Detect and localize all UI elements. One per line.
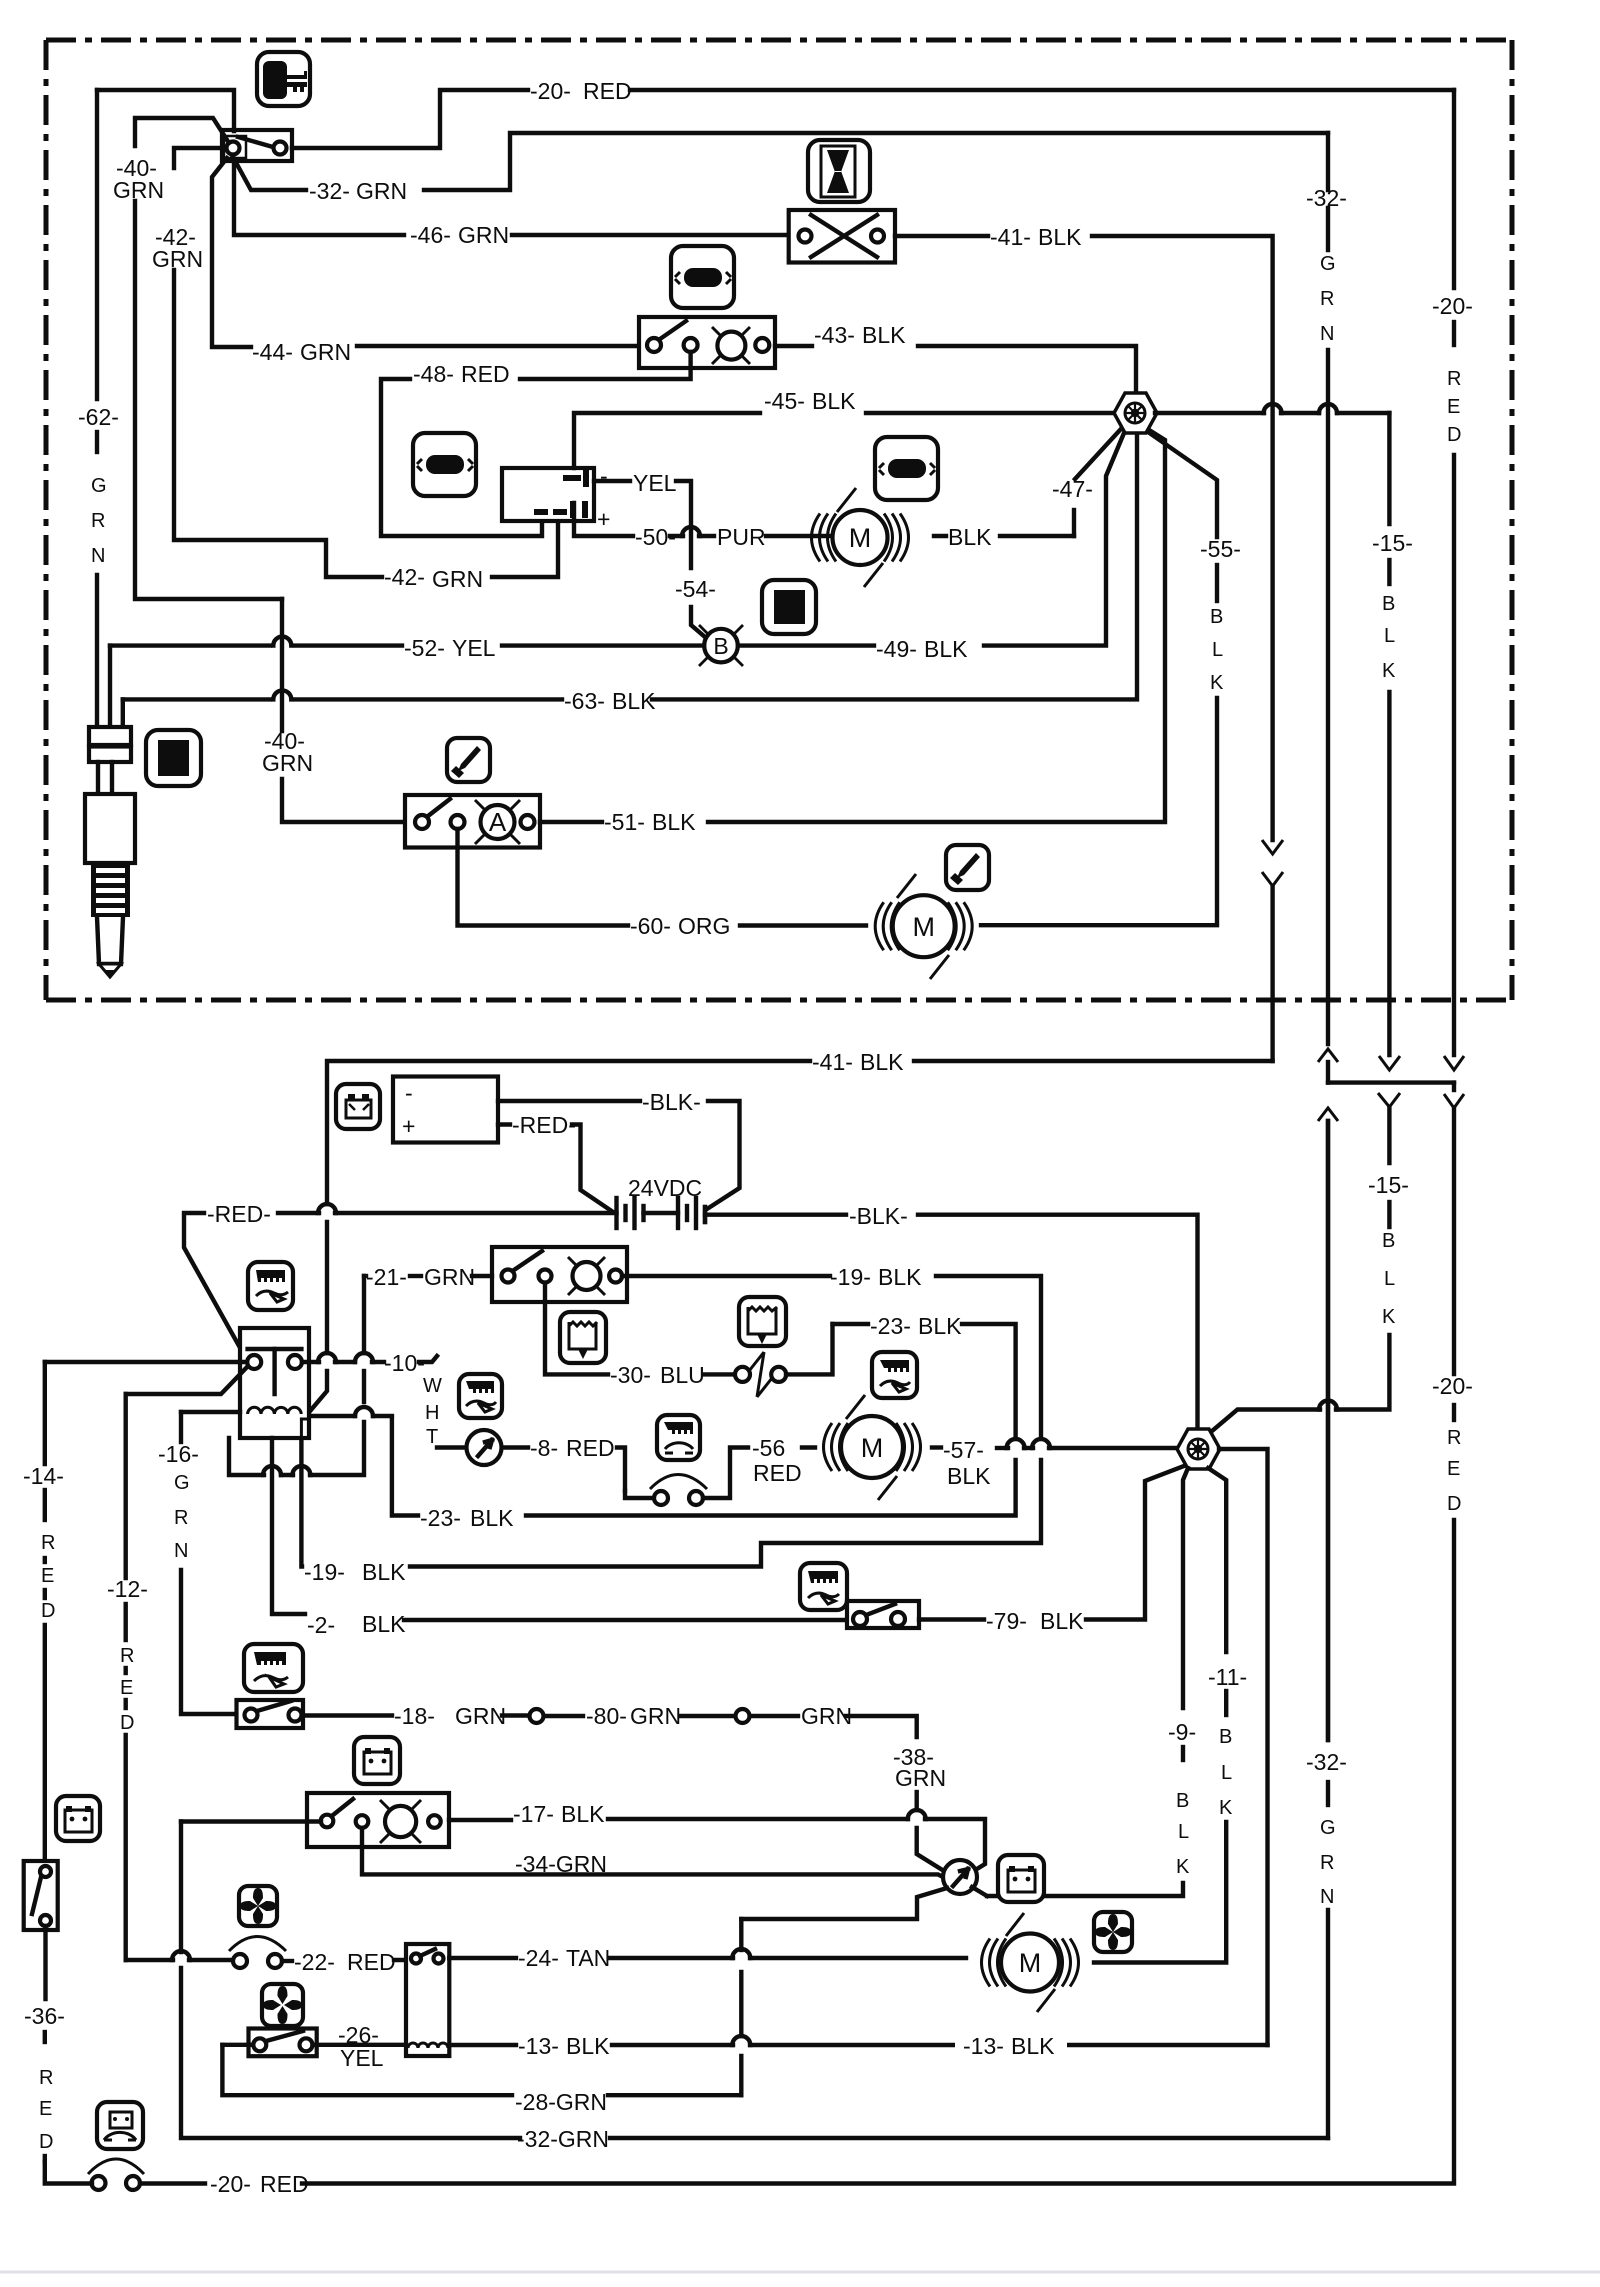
svg-text:-57-: -57- [943,1437,984,1463]
svg-text:N: N [1320,1886,1334,1908]
light switch SW2 box [639,317,775,368]
svg-text:L: L [1384,625,1395,647]
svg-text:D: D [41,1600,55,1622]
gauge ray SW to -28- path [741,1888,947,1919]
fan icon right of fan motor [1094,1912,1132,1952]
-17- switch blade [333,1799,353,1815]
svg-text:T: T [426,1426,438,1448]
fan icon above -26- switch [262,1984,303,2026]
svg-text:M: M [849,523,872,553]
svg-text:-45-: -45- [764,388,805,414]
light switch terminal 1 [647,338,661,352]
svg-text:BLK: BLK [652,809,696,835]
wire -41- BLK lower run to battery charger [914,1059,1273,1063]
wire -2- BLK from relay pole [272,1438,305,1614]
main relay terminal 2 [288,1355,302,1369]
svg-text:A: A [489,807,507,837]
main relay box [240,1328,309,1438]
svg-text:BLK: BLK [812,388,856,414]
svg-text:+: + [402,1113,415,1139]
svg-text:R: R [1447,368,1461,390]
voltage regulator box [502,468,594,521]
headlight switch blade [514,1251,542,1270]
svg-text:ORG: ORG [678,913,730,939]
traction motor M3 [841,1416,903,1478]
svg-text:B: B [1176,1790,1189,1812]
svg-text:-15-: -15- [1368,1172,1409,1198]
-17- switch lamp [385,1806,416,1837]
svg-text:-11-: -11- [1208,1664,1247,1690]
svg-text:-51-: -51- [604,809,645,835]
svg-text:BLK: BLK [362,1559,406,1585]
wire -19- BLK headlight switch loop [622,1274,830,1278]
svg-text:K: K [1210,672,1224,694]
svg-text:-21-: -21- [366,1264,407,1290]
solenoid terminal L [799,230,812,243]
svg-text:G: G [174,1472,190,1494]
wire -48- RED from light switch to regulator [520,352,691,379]
svg-text:-32-GRN: -32-GRN [517,2126,609,2152]
svg-text:-RED-: -RED- [207,1201,271,1227]
lamp icon above dynamo [875,437,938,500]
svg-text:-2-: -2- [307,1612,335,1638]
wire -9- BLK junction J2 to gauge [1183,1468,1188,1708]
wire -55- BLK wiper motor to junction [981,698,1217,925]
gauge ray to -9- [972,1887,987,1896]
fan icon above -22- fuse [239,1886,277,1926]
chevron on -32- at boundary [1318,1049,1338,1062]
wire -15- lower into junction J2 [1336,1335,1389,1410]
svg-text:-32-: -32- [1306,185,1347,211]
svg-text:24VDC: 24VDC [628,1175,702,1201]
lamp icon (rounded square with pill) above light switch [671,246,734,308]
headlight switch terminal 1 [502,1270,515,1283]
squeegee icon above wiper motor [946,845,989,890]
wire -32- GRN from ignition blade to right rail [233,157,306,190]
svg-text:RED: RED [753,1460,802,1486]
svg-text:-BLK-: -BLK- [642,1089,701,1115]
svg-text:-17-: -17- [513,1801,554,1827]
dynamo motor M1 [833,510,888,565]
brake fluid icon 1 [560,1312,606,1363]
ammeter switch terminal 1 [415,815,429,829]
wire -14- RED feed to relay [45,1360,247,1364]
svg-text:-30-: -30- [610,1362,651,1388]
wire -51- BLK ammeter to junction [540,820,602,824]
svg-text:E: E [41,1565,54,1587]
chevron receiving -32- below bus [1318,1108,1338,1121]
svg-text:-44-: -44- [252,339,293,365]
wire -57- BLK motor to junction J2 [932,1445,941,1449]
battery 24VDC cells [614,1198,618,1228]
wire -62- GRN vertical (glow plug feed) [95,90,99,399]
wire -RED- charger positive to battery [498,1122,510,1126]
battery icon top-left of -36- switch [56,1796,100,1841]
wire 40-GRN upper corner to ignition [135,118,229,146]
svg-text:RED: RED [461,361,510,387]
wire to connector [502,1713,529,1717]
svg-text:-52-: -52- [404,635,445,661]
main relay terminal 1 [247,1355,261,1369]
battery icon above -17- switch [354,1737,400,1784]
wire -36- bottom corner [45,2162,92,2184]
wiper motor right chevrons [948,902,973,950]
fan relay contact 1 [411,1954,421,1964]
thermal icon above -18- switch [244,1644,303,1692]
wire -20- RED lower rail to bottom [302,1520,1454,2184]
wire GRN to -38- drop [750,1714,798,1718]
svg-text:E: E [39,2098,52,2120]
headlight switch terminal 3 [609,1270,622,1283]
wire junction J2 exit right to -13- rail [1219,1449,1268,2045]
svg-text:BLK: BLK [470,1505,514,1531]
harness junction node J2 (hexagon) [1177,1429,1220,1469]
fan relay box [406,1944,449,2056]
wire -43- BLK from light switch to junction [775,344,812,348]
svg-text:GRN: GRN [458,222,509,248]
ammeter A [481,805,515,839]
svg-text:B: B [1210,606,1223,628]
wire -20- RED right rail [1452,90,1456,288]
svg-text:-54-: -54- [675,576,716,602]
connector circle (18/80) [530,1709,544,1723]
-36- key switch box [24,1861,58,1930]
wire -13- BLK fan relay coil to -13- rail [449,2043,516,2047]
wire -26- YEL switch to fan relay coil [313,2043,407,2047]
svg-text:-56: -56 [752,1435,785,1461]
wire -30- to brake switch [704,1372,735,1376]
svg-text:D: D [1447,1493,1461,1515]
svg-text:-42-: -42- [384,564,425,590]
fan relay contact 2 [434,1954,444,1964]
wire YEL from regulator [594,479,630,483]
-17- switch terminal 1 [321,1815,334,1828]
svg-text:D: D [39,2131,53,2153]
wire between fuse and relay [282,1959,292,1963]
svg-text:-41-: -41- [812,1049,853,1075]
wire -14- RED left rail [43,1362,47,1464]
wire -15- rail continues to boundary [1387,692,1391,1055]
svg-text:BLK: BLK [1038,224,1082,250]
svg-text:-9-: -9- [1168,1719,1196,1745]
svg-text:-19-: -19- [304,1559,345,1585]
battery charger icon [336,1084,380,1129]
svg-text:-55-: -55- [1200,536,1241,562]
headlight switch box [492,1247,627,1302]
svg-text:D: D [1447,424,1461,446]
thermal icon above traction motor [872,1352,917,1398]
svg-text:RED: RED [566,1435,615,1461]
wire -80- GRN [544,1714,583,1718]
svg-text:-13-: -13- [518,2033,559,2059]
svg-text:BLK: BLK [924,636,968,662]
svg-text:GRN: GRN [801,1703,852,1729]
svg-text:BLK: BLK [948,524,992,550]
svg-text:R: R [91,510,105,532]
svg-text:-28-GRN: -28-GRN [515,2089,607,2115]
headlight switch terminal 2 [539,1270,552,1283]
svg-text:K: K [1382,660,1396,682]
svg-text:B: B [713,633,728,659]
glow plug body [85,794,135,863]
svg-text:-10-: -10- [384,1350,425,1376]
ammeter switch terminal 2 [451,815,465,829]
wire BLK dynamo to -47- [934,534,946,538]
dynamo right chevrons [884,514,909,562]
wire -22- RED from -12- rail [126,1958,173,1962]
svg-text:L: L [1221,1762,1232,1784]
glow plug threads [91,863,130,917]
battery icon right of gauge [998,1855,1044,1902]
wire -BLK- charger negative to battery [498,1099,640,1103]
svg-text:B: B [1382,593,1395,615]
svg-text:R: R [41,1532,55,1554]
light switch terminal 3 [755,338,769,352]
svg-text:L: L [1212,639,1223,661]
fuel shutoff solenoid box with X [789,210,895,263]
svg-text:-32-: -32- [1306,1749,1347,1775]
wire -50- PUR regulator to dynamo [574,503,633,536]
ignition switch terminal B [274,142,287,155]
svg-text:PUR: PUR [717,524,766,550]
svg-text:-43-: -43- [814,322,855,348]
-79- switch blade [866,1604,895,1615]
fan motor right chevrons [1054,1939,1079,1987]
wire -30- BLU from headlight switch [545,1283,608,1374]
wiper motor left chevrons [875,902,900,950]
svg-text:-34-GRN: -34-GRN [515,1851,607,1877]
wire -45- BLK regulator to junction [574,413,760,468]
svg-text:R: R [1320,1852,1334,1874]
light switch lamp [717,332,745,360]
svg-text:-62-: -62- [78,404,119,430]
wire -20- rail continues to boundary [1452,455,1456,1055]
svg-text:-79-: -79- [986,1608,1027,1634]
svg-text:YEL: YEL [340,2045,384,2071]
-17- switch terminal 2 [356,1815,369,1828]
wire 40-GRN vertical [135,201,282,599]
wire -20- RED from ignition to right rail [292,90,528,148]
wire to connector 2 [680,1714,735,1718]
junction J1 through-wire (-45- continues right) [1155,411,1264,415]
svg-text:GRN: GRN [300,339,351,365]
svg-text:K: K [1176,1856,1190,1878]
svg-text:-: - [600,463,608,489]
svg-text:M: M [1019,1948,1042,1978]
svg-text:-8-: -8- [530,1435,558,1461]
svg-text:-50-: -50- [635,524,676,550]
wire -15- lower rail dash [1387,1202,1391,1227]
svg-text:GRN: GRN [895,1765,946,1791]
regulator plus terminal marks [534,501,588,518]
svg-text:-20-: -20- [1432,1373,1473,1399]
wire -60- ORG switch to wiper motor [458,829,629,926]
svg-text:BLK: BLK [1040,1608,1084,1634]
wire -8- RED voltmeter to fuse [502,1445,528,1449]
svg-text:BLK: BLK [561,1801,605,1827]
svg-text:R: R [1320,288,1334,310]
squeegee icon above ammeter switch [447,738,490,782]
-26- switch terminal 1 [253,2038,266,2051]
thermal icon above -56- fuse [657,1415,700,1460]
wire -32- GRN left riser [179,1822,183,1953]
svg-text:-23-: -23- [420,1505,461,1531]
thermal icon above -79- switch [800,1563,847,1610]
svg-text:E: E [120,1677,133,1699]
Y receiver of -15- below boundary [1378,1093,1400,1107]
wire -28- riser to gauge SW path [739,2056,743,2095]
wire -34- GRN from -17- switch to gauge [362,1828,947,1879]
glow plug shaft and tip [97,917,123,964]
wire 42-GRN vertical to regulator [174,270,382,577]
hourglass icon (fuel shutoff delay) [808,140,870,202]
wire -18- GRN [303,1713,392,1717]
svg-text:BLK: BLK [862,322,906,348]
ammeter switch box [405,795,540,848]
svg-text:R: R [1447,1427,1461,1449]
svg-text:-18-: -18- [394,1703,435,1729]
wire -41- BLK solenoid to down-rail [895,234,988,238]
svg-text:BLK: BLK [566,2033,610,2059]
wire -10- WHT from relay [302,1360,319,1364]
svg-text:-20-: -20- [1432,293,1473,319]
ammeter switch terminal 3 [521,815,535,829]
fan relay coil [408,2043,448,2048]
svg-text:B: B [1382,1230,1395,1252]
wire -44- GRN to light switch [212,158,251,347]
light switch blade [660,321,686,339]
main relay fixed bar [248,1347,302,1351]
-18- switch box [237,1700,304,1728]
svg-text:BLK: BLK [860,1049,904,1075]
main relay coil [248,1407,302,1414]
buzzer B [704,629,738,663]
svg-text:-22-: -22- [294,1949,335,1975]
-36- switch terminal 1 [40,1866,51,1877]
svg-text:G: G [1320,253,1336,275]
traction motor left chevrons [824,1423,849,1471]
fuel gauge [943,1860,977,1894]
ammeter switch blade [428,799,450,816]
svg-text:E: E [1447,1458,1460,1480]
svg-text:-32-: -32- [309,178,350,204]
svg-text:BLK: BLK [362,1611,406,1637]
-18- switch terminal 1 [245,1709,258,1722]
battery charger box [393,1077,498,1143]
-18- switch terminal 2 [289,1709,302,1722]
wire -12- RED feed to relay [126,1366,248,1394]
-17- switch box [307,1793,449,1847]
svg-text:G: G [91,475,107,497]
wire 52-feed vertical to glow plug connector [108,646,112,727]
svg-text:R: R [39,2067,53,2089]
wire 42-GRN stub to ignition [174,148,222,168]
svg-text:-63-: -63- [564,688,605,714]
-36- switch blade [32,1877,41,1914]
-79- switch terminal 2 [891,1612,905,1626]
connector circle (80/GRN) [736,1709,750,1723]
solenoid terminal R [871,230,884,243]
wire -11- BLK junction J2 to fan motor [1208,1468,1226,1652]
dynamo left chevrons [812,514,837,562]
wire -32- GRN rail continues to boundary [1326,350,1330,1044]
wire -23- BLK brake switch to motor circuit [786,1324,833,1374]
wire -38- GRN drop to gauge [915,1792,919,1810]
harness junction node J1 (hexagon) [1114,393,1157,433]
wire -28- GRN loop [222,2045,512,2095]
gap for -13- right label [955,2035,1067,2055]
svg-text:GRN: GRN [113,177,164,203]
wire -26- feed from -28- riser [249,2043,254,2047]
svg-text:E: E [1447,396,1460,418]
wire -47- up to junction [1072,510,1076,536]
svg-text:-47-: -47- [1052,476,1093,502]
wire -32- GRN right rail [1326,133,1330,190]
wire fuse to -56- [625,1491,653,1498]
light switch terminal 2 [684,338,698,352]
wire -32- GRN bottom run [610,2136,1328,2140]
wire -21- GRN to headlight switch [364,1274,366,1278]
wire -46- GRN ignition to fuel shutoff solenoid [234,161,404,235]
wire -16- GRN from relay coil [181,1410,240,1414]
key icon (ignition) [257,52,310,106]
-26- switch box [249,2029,317,2057]
svg-text:GRN: GRN [455,1703,506,1729]
wire fuse to label [140,2181,205,2185]
svg-text:-15-: -15- [1372,530,1413,556]
svg-text:-: - [405,1080,413,1106]
heater icon (black square) near glow plug [146,730,201,786]
-26- switch blade [266,2031,303,2041]
fuse -20- bottom [92,2176,106,2190]
svg-text:-48-: -48- [413,361,454,387]
brake fluid icon 2 [739,1297,786,1346]
wire -17- BLK to gauge [449,1818,511,1822]
wire -12- RED left rail [123,1394,127,1578]
-36- switch terminal 2 [40,1915,51,1926]
svg-text:R: R [174,1507,188,1529]
voltmeter circle [467,1430,502,1465]
wire -RED- battery positive rail to relay [335,1211,617,1215]
main relay pole [272,1349,276,1394]
svg-text:BLK: BLK [918,1313,962,1339]
svg-text:-46-: -46- [410,222,451,248]
svg-text:H: H [425,1402,439,1424]
wire 63-feed vertical to glow plug connector [121,699,125,727]
fan motor M4 [1001,1934,1059,1992]
wire 62-GRN feed to ignition (top-left corner run) [97,90,234,131]
fan motor left chevrons [982,1939,1007,1987]
ignition switch S1 box [222,130,292,161]
svg-text:YEL: YEL [452,635,496,661]
svg-text:-19-: -19- [830,1264,871,1290]
headlight switch lamp [573,1262,601,1290]
wire -24- TAN relay to fan motor [449,1956,516,1960]
svg-text:-RED-: -RED- [512,1112,576,1138]
wire -36- RED rail [43,1926,47,1999]
svg-text:L: L [1178,1821,1189,1843]
-79- switch box [847,1601,919,1628]
svg-text:-20-: -20- [210,2171,251,2197]
wire -49- BLK buzzer to junction [738,643,874,647]
svg-text:B: B [1219,1726,1232,1748]
lamp icon left of regulator [413,433,476,496]
thermal icon near voltmeter [459,1374,502,1418]
wire -BLK- battery negative to junction J2 [705,1212,846,1216]
svg-text:GRN: GRN [356,178,407,204]
ignition switch terminal A [227,142,240,155]
wire WHT stub to voltmeter [437,1445,466,1449]
